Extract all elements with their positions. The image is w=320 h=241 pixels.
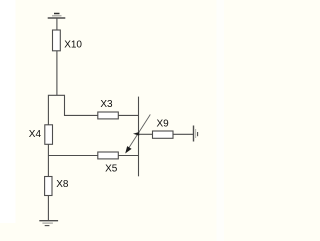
svg-text:X4: X4 (29, 129, 42, 140)
svg-text:X3: X3 (100, 99, 113, 110)
svg-text:X9: X9 (157, 119, 170, 130)
svg-text:X5: X5 (105, 164, 118, 175)
svg-text:X8: X8 (56, 179, 69, 190)
svg-text:X10: X10 (64, 40, 82, 51)
